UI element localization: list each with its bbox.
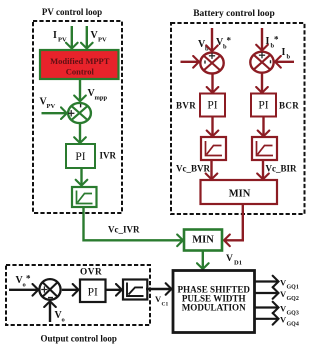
node V_GQ3 label (280, 303, 299, 316)
svg-text:PV: PV (47, 103, 56, 110)
block PI BCR (251, 94, 276, 117)
wire MPPT to summer (79, 79, 81, 101)
PV control loop dashed box (33, 21, 122, 213)
block PI OVR (80, 280, 106, 303)
svg-text:C1: C1 (162, 302, 169, 308)
wire Vc_IVR to MIN (84, 207, 184, 240)
wire V_D1 to PWM (202, 251, 204, 270)
summing junction OVR (39, 279, 60, 300)
node I_b label (282, 47, 291, 61)
wire summer to PI (79, 123, 81, 143)
wire PI to limiter (80, 168, 82, 186)
block Phase Shifted Pulse Width Modulation (173, 271, 255, 333)
node V_PV left label (40, 97, 56, 111)
svg-text:PV: PV (98, 37, 107, 44)
node V_GQ1 label (280, 277, 299, 290)
wire V_o* into summer (9, 289, 38, 291)
node V_GQ2 label (280, 289, 299, 302)
svg-text:IVR: IVR (100, 151, 117, 161)
node I_b* label (266, 35, 280, 50)
block Modified MPPT Control (40, 50, 119, 79)
svg-text:I: I (266, 36, 270, 47)
node V_b* label (216, 36, 232, 51)
wire I_PV arrow (71, 26, 73, 49)
wire summer to PI OVR (62, 289, 79, 291)
wire PI to limiter OVR (106, 289, 122, 291)
wire V_b stub arrow (181, 61, 200, 63)
svg-text:b: b (287, 54, 291, 61)
svg-text:Modified MPPT: Modified MPPT (50, 56, 110, 66)
wire V_b* arrow (211, 28, 213, 51)
svg-text:I: I (53, 30, 57, 41)
wire V_GQ4 output (256, 318, 279, 320)
svg-text:MIN: MIN (229, 189, 251, 200)
svg-text:PI: PI (75, 151, 85, 163)
wire BVR summer to PI (211, 74, 213, 93)
svg-text:GQ1: GQ1 (287, 284, 299, 290)
node V_o* label (16, 274, 32, 289)
svg-text:BCR: BCR (279, 101, 299, 111)
summing junction BCR (250, 52, 273, 73)
node V_o label (55, 310, 65, 324)
svg-text:*: * (26, 274, 31, 284)
svg-text:*: * (274, 35, 279, 45)
svg-text:o: o (62, 317, 65, 324)
summing junction BVR (200, 53, 223, 74)
svg-text:I: I (282, 47, 286, 58)
block PI IVR (66, 144, 95, 168)
limiter block BCR (252, 137, 277, 160)
wire I_b* arrow (261, 28, 263, 51)
wire limiter to MIN BVR (210, 160, 212, 179)
svg-text:Vc_IVR: Vc_IVR (108, 224, 140, 234)
node V_PV top label (91, 30, 107, 44)
svg-text:GQ2: GQ2 (287, 296, 299, 302)
svg-text:Battery control loop: Battery control loop (193, 9, 275, 19)
svg-text:Control: Control (66, 67, 95, 77)
svg-text:GQ4: GQ4 (287, 322, 299, 328)
wire V_GQ3 output (256, 306, 279, 308)
Output control loop dashed box (6, 265, 150, 325)
block PI BVR (200, 94, 225, 117)
block MIN green (184, 230, 222, 251)
svg-text:Output control loop: Output control loop (41, 334, 117, 344)
limiter block PV (72, 187, 97, 207)
wire V_PV into summer (42, 112, 67, 114)
wire battery MIN to green MIN (224, 204, 243, 240)
svg-text:*: * (227, 36, 232, 46)
wire PI to limiter BCR (262, 117, 264, 137)
svg-text:PI: PI (88, 287, 98, 299)
svg-text:PI: PI (207, 100, 217, 112)
svg-text:OVR: OVR (80, 267, 102, 277)
svg-text:Vc_BIR: Vc_BIR (266, 164, 297, 174)
wire V_PV arrow (86, 26, 88, 49)
node V_b label (198, 39, 209, 53)
node I_PV label (53, 30, 67, 44)
svg-text:D1: D1 (234, 260, 242, 267)
svg-text:BVR: BVR (176, 101, 196, 111)
wire limiter to MIN BCR (262, 160, 264, 179)
svg-text:MODULATION: MODULATION (182, 303, 246, 313)
svg-text:PV control loop: PV control loop (42, 7, 102, 17)
node V_mpp label (88, 88, 108, 102)
wire I_b stub arrow (275, 61, 294, 63)
node V_C1 label (155, 294, 168, 308)
node V_GQ4 label (280, 315, 299, 328)
wire V_o into summer (49, 301, 51, 322)
svg-text:PV: PV (58, 37, 67, 44)
svg-text:GQ3: GQ3 (287, 310, 299, 316)
limiter block BVR (201, 137, 226, 160)
svg-text:mpp: mpp (95, 95, 108, 102)
svg-text:V: V (226, 254, 233, 264)
svg-text:PI: PI (258, 100, 268, 112)
wire PI to limiter BVR (211, 117, 213, 137)
svg-text:Vc_BVR: Vc_BVR (176, 164, 210, 174)
wire V_GQ2 output (256, 292, 279, 294)
limiter block OVR (123, 280, 147, 300)
svg-text:b: b (205, 46, 209, 53)
block MIN battery (201, 180, 278, 204)
wire V_C1 to PWM (146, 288, 172, 290)
wire V_GQ1 output (256, 280, 279, 282)
summing junction PV (68, 103, 91, 123)
Battery control loop dashed box (171, 23, 305, 214)
node V_D1 label (226, 254, 242, 267)
svg-text:MIN: MIN (192, 235, 214, 246)
wire BCR summer to PI (261, 73, 263, 93)
